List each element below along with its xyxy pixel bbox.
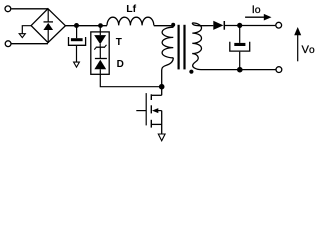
label Vo with arrow bbox=[294, 27, 315, 61]
label Io with arrow bbox=[245, 4, 271, 20]
wire bbox=[239, 52, 241, 70]
wire bbox=[99, 26, 101, 35]
terminal output minus bbox=[276, 67, 282, 73]
wire bbox=[225, 25, 275, 27]
svg-text:D: D bbox=[117, 59, 124, 70]
transformer core bbox=[178, 25, 180, 70]
terminal AC input top bbox=[5, 6, 11, 12]
wire bbox=[239, 26, 241, 43]
inductor Lf bbox=[107, 17, 154, 25]
clamp box bbox=[91, 32, 109, 74]
node bulk cap junction bbox=[74, 23, 79, 28]
ground source bbox=[158, 134, 165, 141]
secondary top exit bbox=[192, 23, 213, 26]
diode D blocking bbox=[94, 59, 107, 74]
gate bar bbox=[145, 93, 147, 125]
gate lead bbox=[136, 110, 146, 112]
drain bracket bbox=[151, 94, 161, 96]
terminal output plus bbox=[276, 22, 282, 28]
capacitor C2 output bbox=[230, 42, 250, 51]
wire bbox=[12, 43, 49, 45]
capacitor C1 bulk input bbox=[69, 37, 86, 45]
node drain junction bbox=[159, 84, 165, 90]
primary entry from rail bbox=[171, 26, 174, 28]
bridge rectifier BR1 diamond bbox=[31, 9, 65, 43]
secondary phasing dot bbox=[189, 70, 193, 74]
primary exit to drain node bbox=[162, 58, 174, 96]
svg-text:Vo: Vo bbox=[302, 44, 315, 56]
MOSFET Q1 bbox=[136, 93, 161, 134]
node output cap top bbox=[237, 23, 242, 28]
ground primary below C1 bbox=[74, 62, 80, 67]
node clamp junction bbox=[98, 23, 103, 28]
wire bbox=[99, 47, 101, 58]
source bracket bbox=[151, 123, 161, 125]
transformer secondary winding bbox=[192, 23, 201, 54]
wire DC rail bbox=[65, 25, 107, 27]
svg-text:T: T bbox=[116, 37, 122, 48]
AC line marker arrow at bridge left vertex bbox=[19, 26, 31, 38]
wire bbox=[76, 46, 78, 62]
wire bbox=[11, 8, 48, 10]
primary phasing dot bbox=[171, 23, 175, 27]
node output cap bottom bbox=[237, 67, 243, 73]
secondary bottom exit curl bbox=[192, 54, 275, 70]
terminal AC input bottom bbox=[5, 41, 11, 47]
source/body vertical bbox=[161, 111, 163, 135]
channel segments bbox=[150, 94, 152, 100]
transformer T1 primary winding bbox=[162, 27, 173, 58]
svg-text:Lf: Lf bbox=[126, 3, 136, 15]
TVS T (zener) bbox=[94, 35, 106, 50]
wire bbox=[154, 25, 171, 27]
bridge inner diode bbox=[43, 9, 53, 43]
body arrow bbox=[152, 108, 158, 113]
wire bbox=[76, 26, 78, 39]
svg-text:Io: Io bbox=[252, 4, 261, 16]
wire clamp return bbox=[100, 74, 161, 86]
output diode D1 bbox=[213, 21, 224, 30]
